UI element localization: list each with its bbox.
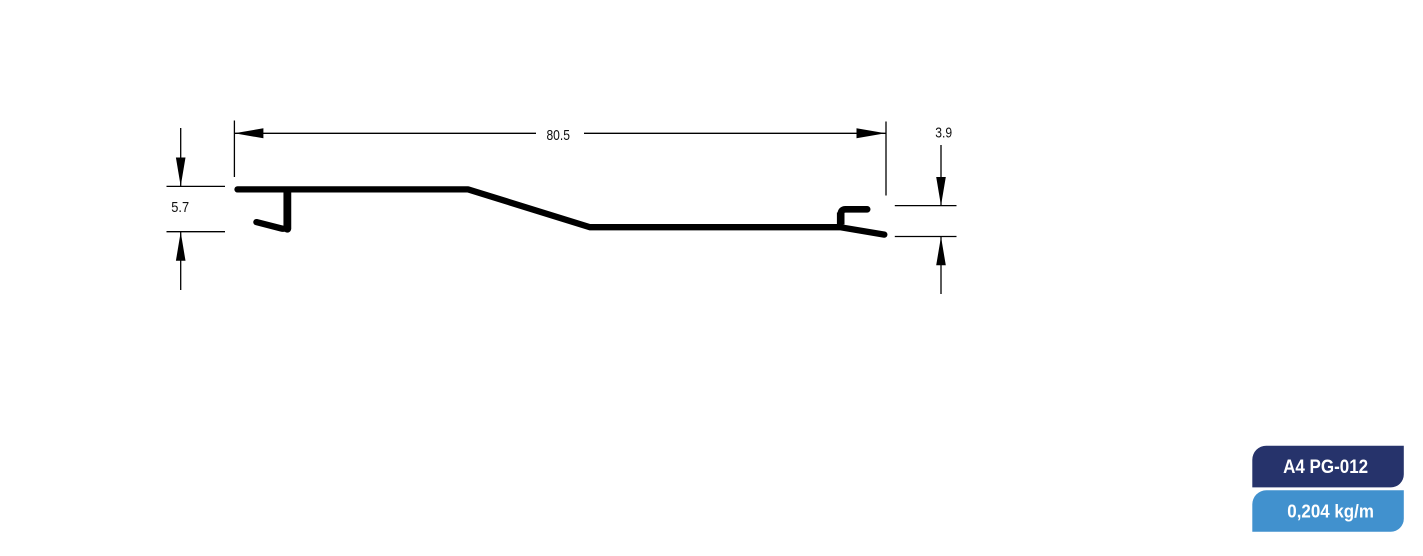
- profile cross-section main body: top flange, slope, bottom web, tail: [238, 189, 885, 234]
- arrow 5.7 down: [176, 158, 186, 187]
- arrow 80.5 right: [857, 128, 886, 138]
- svg-text:5.7: 5.7: [171, 199, 189, 216]
- svg-text:3.9: 3.9: [935, 125, 952, 142]
- dimension line 80.5 right segment: [584, 132, 886, 134]
- extension line right vertical (80.5): [885, 122, 887, 196]
- dim 5.7 top vertical line: [180, 128, 182, 186]
- badge dark navy A4 PG-012: [1252, 446, 1404, 488]
- extension line left vertical (80.5): [233, 121, 235, 178]
- profile left J hook: [256, 192, 287, 229]
- extension line 5.7 lower: [167, 231, 226, 233]
- arrow 80.5 left: [234, 128, 263, 138]
- dimension line 80.5 left segment: [234, 132, 536, 134]
- dim 3.9 bottom vertical line: [940, 237, 942, 294]
- arrow 5.7 up: [176, 232, 186, 261]
- svg-text:80.5: 80.5: [546, 127, 570, 144]
- svg-text:A4 PG-012: A4 PG-012: [1283, 457, 1368, 478]
- extension line 5.7 upper: [167, 185, 226, 187]
- profile right hook: [841, 209, 868, 224]
- arrow 3.9 up: [936, 237, 946, 265]
- svg-text:0,204 kg/m: 0,204 kg/m: [1287, 501, 1374, 522]
- extension line 3.9 lower: [895, 236, 957, 238]
- dim 3.9 top vertical line: [940, 145, 942, 205]
- dim 5.7 bottom vertical line: [180, 232, 182, 290]
- extension line 3.9 upper: [895, 205, 957, 207]
- arrow 3.9 down: [936, 177, 946, 206]
- badge light blue 0,204 kg/m: [1252, 490, 1404, 531]
